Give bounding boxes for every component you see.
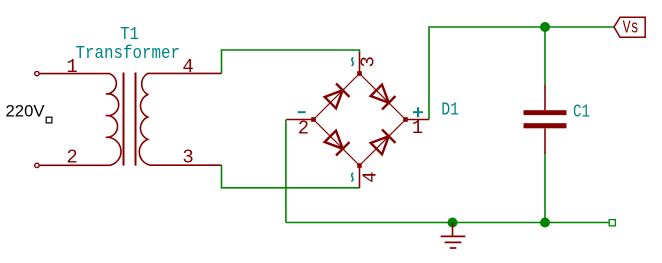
svg-text:4: 4 xyxy=(182,56,193,78)
unconnected wire end square xyxy=(609,220,615,226)
wire transformer pin3 to bridge pin4 xyxy=(222,165,360,188)
wire transformer pin4 to bridge pin3 xyxy=(222,50,360,73)
pin name tilde (bottom AC) xyxy=(351,173,353,182)
wire bridge pin2 to ground rail xyxy=(285,120,287,223)
node square left xyxy=(311,117,316,122)
pin name minus xyxy=(298,111,306,113)
pin 2 line (bottom) xyxy=(544,129,546,155)
pin 2 line (left) xyxy=(287,119,314,121)
svg-text:C1: C1 xyxy=(573,102,590,122)
label anchor square xyxy=(46,117,52,123)
junction at Vs rail / C1 xyxy=(540,22,550,32)
diode lower-right xyxy=(371,130,396,155)
pin name tilde (top AC) xyxy=(352,57,354,66)
primary winding with pin1/pin2 stubs xyxy=(40,74,122,166)
ground bar 2 xyxy=(445,241,462,243)
diode upper-right xyxy=(371,85,396,110)
capacitor C1 xyxy=(524,85,567,154)
node square right xyxy=(403,117,408,122)
bottom plate xyxy=(524,123,567,128)
pin 1 line (right) xyxy=(406,119,430,121)
svg-text:Vs: Vs xyxy=(623,19,639,39)
pin 4 line (bottom) xyxy=(359,166,361,189)
bridge edge top-right xyxy=(360,74,406,120)
node square top xyxy=(357,71,362,76)
pin 3 line (top) xyxy=(359,53,361,74)
wire C1 top branch xyxy=(544,27,546,85)
secondary winding with pin4/pin3 stubs xyxy=(139,73,221,165)
bridge edge left-top xyxy=(314,74,360,120)
diode lower-left xyxy=(325,131,350,156)
global label Vs xyxy=(614,17,645,38)
svg-text:Transformer: Transformer xyxy=(76,44,181,64)
svg-text:3: 3 xyxy=(182,147,193,169)
diode upper-left xyxy=(325,84,350,109)
svg-text:D1: D1 xyxy=(441,101,459,121)
pin 2 circle xyxy=(35,163,39,167)
core line left xyxy=(123,73,125,166)
svg-text:2: 2 xyxy=(66,147,77,169)
bridge rectifier D1 xyxy=(287,53,430,189)
transformer T1 xyxy=(35,71,222,167)
svg-text:T1: T1 xyxy=(120,25,139,45)
ground bar 3 xyxy=(450,247,457,249)
wire bridge pin1 to Vs rail xyxy=(429,27,614,120)
node square bottom xyxy=(357,163,362,168)
ground symbol xyxy=(441,223,466,249)
svg-text:1: 1 xyxy=(412,117,423,139)
svg-text:3: 3 xyxy=(358,56,380,67)
pin name plus xyxy=(413,107,423,117)
svg-text:2: 2 xyxy=(298,117,309,139)
top plate xyxy=(524,110,567,115)
pin 1 circle xyxy=(35,71,39,75)
ground stem xyxy=(452,223,454,237)
pin 1 line (top) xyxy=(544,85,546,110)
bridge edge bottom-right xyxy=(360,120,406,166)
wire C1 bottom branch xyxy=(544,154,546,223)
bridge edge left-bottom xyxy=(314,120,360,166)
core line right xyxy=(135,73,137,166)
ground bar 1 xyxy=(441,235,466,237)
wire ground rail xyxy=(286,222,609,224)
svg-text:220V: 220V xyxy=(6,102,46,121)
svg-text:4: 4 xyxy=(359,171,381,182)
junction at ground rail / GND xyxy=(448,218,458,228)
junction at ground rail / C1 xyxy=(540,218,550,228)
